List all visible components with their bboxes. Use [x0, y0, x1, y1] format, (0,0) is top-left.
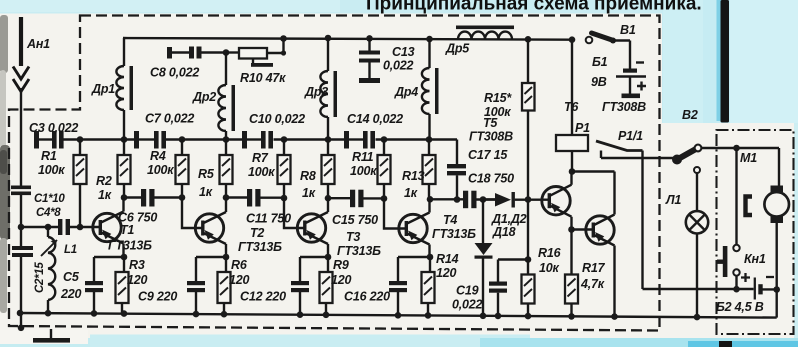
wire bias line	[63, 140, 457, 165]
resistor R13	[402, 140, 436, 201]
capacitor C2*	[12, 227, 46, 313]
node R15 top	[525, 36, 532, 43]
transistor T2	[195, 198, 282, 258]
motor M1	[740, 151, 789, 290]
svg-text:Др4: Др4	[394, 85, 418, 99]
resistor R2	[96, 140, 131, 203]
svg-text:R2: R2	[96, 174, 112, 188]
svg-text:Д1,Д2: Д1,Д2	[491, 212, 527, 226]
svg-text:С5: С5	[63, 270, 80, 284]
svg-text:R11: R11	[352, 150, 374, 164]
node base T1 row dots	[18, 224, 25, 231]
capacitor C11	[246, 189, 291, 226]
svg-text:120: 120	[331, 273, 352, 287]
resistor R6	[218, 257, 287, 314]
capacitor C7	[134, 112, 194, 149]
svg-text:ГТ313Б: ГТ313Б	[238, 240, 282, 254]
wire collector row stage1-2	[124, 196, 284, 199]
svg-text:1к: 1к	[302, 186, 316, 200]
svg-text:С16 220: С16 220	[344, 290, 390, 304]
node V2 to Kn1 junction	[733, 145, 740, 152]
svg-text:0,022: 0,022	[452, 298, 483, 312]
svg-text:ГТ313Б: ГТ313Б	[108, 239, 152, 253]
svg-text:ГТ308В: ГТ308В	[602, 100, 646, 114]
choke Dr1	[91, 38, 133, 140]
switch V1	[586, 23, 636, 69]
wire base stubs stages 2-4	[182, 198, 406, 229]
wire bottom bus	[20, 313, 777, 318]
svg-text:С4*8: С4*8	[36, 207, 61, 219]
ground stub to shield	[18, 313, 70, 343]
antenna An1	[13, 17, 50, 186]
button Kn1	[717, 148, 766, 289]
cyan bottom strip	[0, 338, 798, 347]
resistor R16	[522, 196, 562, 316]
svg-text:100к: 100к	[248, 165, 275, 179]
capacitor C17	[447, 148, 508, 203]
svg-text:120: 120	[229, 273, 250, 287]
dashed enclosure main receiver box	[9, 16, 660, 331]
cyan top strip	[0, 0, 798, 14]
wire top supply bus	[123, 38, 573, 40]
svg-text:ГТ308В: ГТ308В	[469, 130, 513, 144]
svg-text:R4: R4	[150, 149, 166, 163]
svg-text:С13: С13	[392, 45, 415, 59]
svg-text:Ан1: Ан1	[26, 37, 50, 51]
svg-text:С10 0,022: С10 0,022	[249, 112, 305, 126]
svg-text:1к: 1к	[199, 185, 213, 199]
wire emitter row	[94, 256, 430, 258]
capacitor C10	[242, 112, 305, 149]
choke Dr3	[304, 35, 337, 140]
inductor L1	[41, 227, 77, 313]
resistor R10 (trimmer)	[226, 38, 286, 85]
svg-text:Т1: Т1	[120, 223, 134, 237]
diode D1	[483, 192, 548, 239]
node collector/base dots mid row	[121, 194, 128, 201]
svg-text:Др2: Др2	[192, 90, 216, 104]
black blob bottom-right (page artifact)	[719, 341, 732, 347]
svg-text:С7 0,022: С7 0,022	[145, 112, 194, 126]
relay contact P1/1	[596, 129, 676, 289]
svg-text:R14: R14	[436, 252, 459, 266]
resistor R14	[422, 252, 459, 316]
svg-text:С17 15: С17 15	[468, 148, 508, 162]
resistor R8	[300, 140, 335, 201]
svg-text:9В: 9В	[591, 75, 607, 89]
transistor T3	[297, 198, 381, 258]
resistor R5	[198, 140, 233, 200]
resistor R15*	[484, 39, 535, 199]
svg-text:Т5: Т5	[483, 116, 498, 130]
wire relay to T6 collector	[572, 170, 615, 172]
resistor R9	[320, 257, 391, 315]
svg-text:120: 120	[127, 273, 148, 287]
svg-text:Д18: Д18	[492, 225, 516, 239]
svg-text:В1: В1	[620, 23, 636, 37]
capacitor C9	[187, 257, 205, 314]
capacitor C3	[29, 121, 78, 149]
svg-text:R5: R5	[198, 167, 215, 181]
svg-text:Б1: Б1	[592, 55, 608, 69]
svg-text:R17: R17	[582, 261, 606, 275]
svg-text:Кн1: Кн1	[744, 252, 766, 266]
transistor T4	[399, 199, 476, 257]
svg-text:С18 750: С18 750	[468, 172, 514, 186]
resistor R17	[565, 230, 606, 317]
svg-text:100к: 100к	[147, 163, 174, 177]
node R10 right / bus tap	[281, 50, 286, 55]
choke Dr4	[394, 36, 439, 140]
svg-text:С15 750: С15 750	[332, 213, 378, 227]
wire T6 base	[572, 228, 593, 230]
svg-text:ГТ313Б: ГТ313Б	[432, 227, 476, 241]
node emitter dots	[121, 254, 128, 261]
resistor R1	[38, 140, 87, 228]
svg-text:С8 0,022: С8 0,022	[150, 66, 199, 80]
svg-text:С14 0,022: С14 0,022	[347, 112, 403, 126]
capacitor C13	[359, 35, 415, 83]
wire motor branch down	[776, 290, 778, 318]
svg-text:Принципиальная схема приемника: Принципиальная схема приемника.	[366, 0, 702, 15]
svg-text:Р1/1: Р1/1	[618, 129, 643, 143]
capacitor C1*	[11, 186, 65, 228]
capacitor C8	[150, 47, 226, 80]
svg-text:R13: R13	[402, 169, 425, 183]
black bar top-right (page artifact)	[717, 0, 722, 121]
svg-text:С19: С19	[456, 284, 479, 298]
lamp L1	[665, 167, 708, 317]
switch V2	[672, 108, 779, 186]
svg-text:В2: В2	[682, 108, 698, 122]
svg-text:R10 47к: R10 47к	[240, 71, 286, 85]
svg-text:R1: R1	[41, 149, 57, 163]
capacitor C6	[118, 189, 157, 225]
resistor R3	[116, 257, 178, 314]
battery B2	[643, 273, 781, 314]
svg-text:С3 0,022: С3 0,022	[29, 121, 78, 135]
battery B1	[591, 55, 646, 98]
svg-text:1к: 1к	[98, 188, 112, 202]
capacitor C12	[291, 257, 309, 315]
transistor T1	[93, 198, 152, 258]
cyan right sliver	[794, 123, 798, 347]
svg-text:М1: М1	[740, 151, 757, 165]
svg-text:R9: R9	[333, 258, 349, 272]
svg-text:Др5: Др5	[445, 42, 470, 56]
svg-text:С12 220: С12 220	[240, 290, 286, 304]
svg-text:Р1: Р1	[575, 121, 590, 135]
grey scan smudges left edge	[0, 15, 8, 73]
node T5 emitter / T6 base	[568, 226, 575, 233]
svg-text:Б2 4,5 В: Б2 4,5 В	[716, 300, 764, 314]
relay P1	[556, 36, 590, 171]
svg-text:1к: 1к	[404, 186, 418, 200]
capacitor C15	[332, 190, 378, 227]
svg-text:R7: R7	[252, 151, 269, 165]
capacitor C16	[389, 257, 407, 315]
svg-text:10к: 10к	[539, 261, 560, 275]
transistor T5	[469, 116, 572, 230]
svg-text:Др1: Др1	[91, 82, 115, 96]
resistor R11	[350, 140, 391, 199]
svg-text:R6: R6	[231, 258, 248, 272]
svg-text:L1: L1	[64, 244, 77, 256]
svg-text:R8: R8	[300, 169, 316, 183]
dash-dot enclosure motor unit box	[717, 130, 794, 334]
svg-text:Т4: Т4	[443, 213, 457, 227]
node C8/R10/Dr2	[223, 49, 230, 56]
wire T1 base row	[21, 226, 99, 228]
capacitor C19	[452, 260, 527, 316]
svg-text:100к: 100к	[38, 163, 65, 177]
node T5 collector / relay	[569, 168, 576, 175]
capacitor C14	[344, 112, 403, 149]
transistor T6	[564, 100, 646, 317]
svg-text:100к: 100к	[350, 164, 377, 178]
node diode junction	[480, 196, 487, 203]
svg-text:220: 220	[60, 287, 82, 301]
svg-text:R16: R16	[538, 246, 562, 260]
capacitor C4*	[36, 207, 70, 235]
resistor R7	[248, 140, 291, 199]
svg-text:С9 220: С9 220	[138, 290, 177, 304]
choke Dr5	[445, 26, 514, 56]
svg-text:Др3: Др3	[304, 85, 328, 99]
svg-text:0,022: 0,022	[383, 59, 414, 73]
svg-text:120: 120	[436, 266, 457, 280]
svg-text:С2*15: С2*15	[34, 262, 46, 293]
svg-text:Т3: Т3	[346, 230, 360, 244]
choke Dr2	[192, 53, 235, 140]
capacitor C5	[85, 257, 103, 314]
svg-text:R3: R3	[129, 258, 145, 272]
wire collector row stage3-4	[328, 198, 495, 199]
node bottom bus dots	[17, 310, 24, 317]
svg-text:4,7к: 4,7к	[580, 277, 605, 291]
svg-text:Л1: Л1	[665, 193, 681, 207]
capacitor C18	[463, 172, 514, 209]
resistor R4	[147, 140, 189, 198]
cyan right block	[662, 0, 798, 123]
svg-text:R15*: R15*	[484, 91, 512, 105]
svg-text:С1*10: С1*10	[34, 193, 65, 205]
diode D2	[475, 200, 493, 316]
node bias dots	[77, 136, 84, 143]
svg-text:Т2: Т2	[250, 226, 264, 240]
svg-text:ГТ313Б: ГТ313Б	[337, 244, 381, 258]
